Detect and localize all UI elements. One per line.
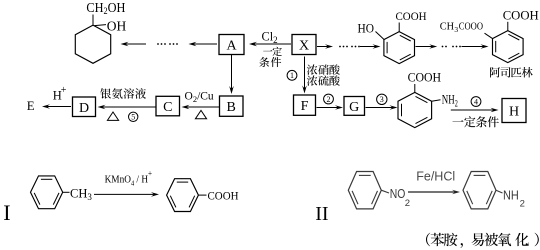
circled 3 — [377, 94, 387, 104]
label COOH (salicylic) — [396, 11, 427, 23]
svg-text:NO: NO — [390, 186, 406, 201]
svg-text:CH: CH — [440, 20, 454, 32]
arrow dots toward salicylic acid — [360, 44, 381, 49]
benzene ring aniline — [463, 172, 496, 209]
svg-text:1: 1 — [290, 71, 294, 80]
arrow F to G — [317, 105, 344, 110]
label conditions under arrow 4 — [452, 116, 498, 127]
svg-text:COOH: COOH — [408, 71, 442, 85]
label II (roman numeral) — [315, 203, 328, 225]
circled 4 — [471, 97, 481, 107]
label H+ — [53, 85, 67, 103]
bond aniline to NH2 — [496, 190, 503, 193]
structure cyclohexane ring (top-left product) — [75, 25, 110, 63]
benzene ring nitrobenzene — [348, 172, 381, 209]
svg-text:C: C — [163, 100, 172, 115]
svg-text:E: E — [27, 99, 35, 113]
arrow salicylic toward dots — [416, 44, 438, 49]
arrow toluene to benzoic acid — [94, 192, 159, 197]
label aspirin (Chinese) — [490, 67, 533, 78]
svg-text:NH: NH — [503, 188, 519, 203]
label Fe/HCl — [416, 168, 455, 183]
label COOH (aspirin) — [503, 8, 539, 23]
svg-text:KMnO4 / H+: KMnO4 / H+ — [105, 168, 153, 188]
label OH — [107, 19, 127, 34]
arrow anthranilic to H — [451, 108, 499, 113]
bond ring to OH — [95, 25, 107, 26]
bond HO to salicylic ring — [376, 32, 384, 40]
bond benzoic ring to COOH — [198, 194, 206, 196]
svg-text:2: 2 — [327, 95, 331, 104]
svg-text:4: 4 — [474, 97, 478, 106]
dots between arrows (left chain) — [157, 43, 178, 45]
svg-text:I: I — [3, 200, 10, 225]
bond nitrobenzene to NO2 — [381, 190, 389, 193]
double bonds nitrobenzene — [352, 175, 377, 204]
label conc nitric acid — [307, 64, 340, 74]
bond toluene ring to CH3 — [63, 191, 70, 193]
box D — [73, 97, 96, 117]
double bonds aspirin — [496, 34, 520, 59]
triangle delta (B to C) — [195, 110, 206, 118]
svg-text:Fe/HCl: Fe/HCl — [416, 168, 455, 183]
double bonds salicylic acid — [387, 35, 411, 60]
svg-text:HO: HO — [358, 21, 375, 35]
double bonds benzoic acid — [170, 182, 194, 207]
svg-text:5: 5 — [131, 113, 135, 122]
label CH3COOO — [440, 20, 483, 34]
svg-text:2: 2 — [405, 198, 410, 209]
svg-text:+: + — [61, 85, 67, 96]
benzene ring salicylic acid — [384, 32, 415, 64]
label CH3 — [70, 186, 92, 202]
box B — [220, 96, 244, 116]
arrow nitrobenzene to aniline — [408, 190, 460, 195]
label HO — [358, 21, 375, 35]
double bonds toluene — [34, 179, 59, 204]
svg-text:COOH: COOH — [503, 8, 539, 23]
label NH2 (aniline) — [503, 188, 525, 210]
arrow D to E — [42, 104, 71, 109]
triangle delta (C to D) — [107, 112, 118, 120]
benzene ring aspirin — [493, 31, 524, 63]
svg-text:Cl2: Cl2 — [262, 29, 278, 45]
note aniline easily oxidized (Chinese) — [426, 233, 539, 249]
label silver-ammonia solution — [100, 88, 146, 99]
svg-text:X: X — [299, 39, 309, 54]
label O2/Cu — [185, 90, 214, 104]
arrow X to A (left) — [249, 42, 291, 47]
label KMnO4/H+ — [105, 168, 153, 188]
label tiaojian (conditions line2) — [259, 57, 281, 67]
label E — [27, 99, 35, 113]
svg-text:2: 2 — [520, 199, 525, 210]
label NH2 (anthranilic) — [442, 92, 458, 109]
svg-text:A: A — [226, 39, 237, 54]
benzene ring benzoic acid — [167, 179, 199, 212]
svg-text:3: 3 — [380, 95, 384, 104]
arrow A-side toward ring (left) — [121, 42, 147, 47]
arrow X toward dots (right) — [317, 44, 333, 49]
svg-text:OH: OH — [107, 19, 127, 34]
label COOH (anthranilic) — [408, 71, 442, 85]
svg-text:COOH: COOH — [208, 191, 239, 203]
svg-text:COOO: COOO — [459, 20, 483, 32]
bond anthranilic ring to COOH — [414, 84, 416, 92]
svg-text:O2/Cu: O2/Cu — [185, 90, 214, 104]
arrow X down to F — [302, 57, 307, 94]
circled 5 — [129, 112, 138, 122]
svg-text:3: 3 — [454, 25, 458, 34]
label COOH (benzoic) — [208, 191, 239, 203]
arrow B to C — [182, 105, 220, 110]
label Cl2 — [262, 29, 278, 45]
label CH2OH — [86, 0, 125, 16]
bond CH3COOO to aspirin ring — [485, 33, 493, 38]
svg-text:H: H — [509, 105, 519, 120]
bond ring to CH2OH — [92, 15, 94, 26]
svg-text:F: F — [301, 99, 309, 114]
bond salicylic ring to COOH — [398, 23, 400, 32]
svg-text:II: II — [315, 203, 328, 225]
svg-text:G: G — [349, 100, 359, 115]
circled 2 — [324, 94, 334, 104]
arrow dots toward aspirin — [462, 44, 489, 49]
dots between X and salicylic acid — [339, 46, 360, 48]
box A — [219, 35, 244, 55]
label I (roman numeral) — [3, 200, 10, 225]
circled 1 — [287, 70, 297, 80]
arrow toward dots from A (left) — [189, 42, 218, 47]
label NO2 — [390, 186, 410, 209]
svg-text:COOH: COOH — [396, 11, 427, 23]
label conc sulfuric acid — [307, 75, 340, 85]
benzene ring anthranilic acid — [398, 92, 432, 127]
arrow A down to B — [229, 55, 234, 94]
svg-text:B: B — [227, 100, 236, 115]
bond aspirin ring to COOH — [507, 22, 509, 31]
bond anthranilic ring to NH2 — [432, 100, 441, 101]
dots between salicylic and aspirin — [442, 46, 461, 48]
box G — [344, 97, 365, 116]
benzene ring toluene — [31, 176, 63, 209]
arrow C to D — [98, 105, 156, 110]
label yiding (conditions line1) — [263, 47, 282, 56]
svg-text:NH2: NH2 — [442, 92, 458, 109]
box F — [294, 95, 316, 115]
svg-text:CH2OH: CH2OH — [86, 0, 125, 16]
box X — [292, 35, 316, 55]
arrow G to anthranilic ring — [366, 105, 398, 110]
svg-text:D: D — [79, 101, 89, 116]
box H — [502, 99, 526, 123]
double bonds aniline — [467, 175, 492, 204]
svg-text:.: . — [525, 233, 529, 249]
box C — [156, 96, 180, 116]
svg-text:CH3: CH3 — [70, 186, 92, 202]
double bonds anthranilic acid — [402, 96, 428, 123]
